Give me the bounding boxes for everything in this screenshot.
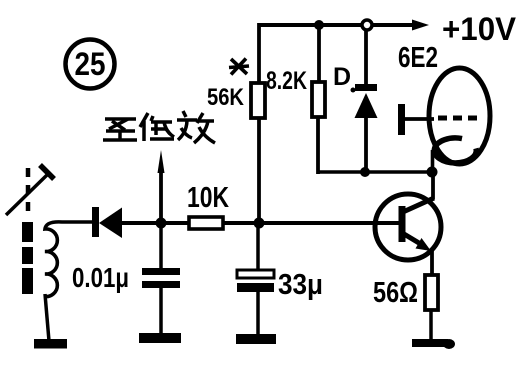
tube cathode lead to node (431, 150, 435, 174)
svg-text:10K: 10K (187, 182, 229, 214)
svg-text:8.2K: 8.2K (266, 67, 307, 95)
capacitor 0.01u plates (142, 268, 180, 288)
rail arrowhead (412, 20, 429, 31)
capacitor 33u negative plate (237, 283, 274, 292)
wire 56K to base node (257, 118, 261, 223)
diode D (cathode bar top, triangle pointing up) (355, 84, 378, 118)
wire emitter to 56 ohm (430, 249, 434, 277)
terminal circle on rail (diode D branch) (362, 20, 372, 30)
capacitor 33u positive plate (hollow) (237, 270, 274, 278)
wire bottom rail to transistor collector (431, 172, 435, 199)
transistor base bar (399, 206, 406, 242)
wire node to capacitor 0.01u (159, 223, 163, 270)
transistor emitter stroke with arrow (404, 234, 431, 251)
transistor collector stroke (403, 198, 434, 212)
svg-text:+10V: +10V (442, 11, 517, 47)
circuit number 25 badge (66, 40, 115, 89)
wire 8.2K to bottom rail (316, 117, 320, 174)
svg-text:25: 25 (75, 46, 106, 82)
tube cathode arc (434, 138, 476, 163)
output arrow to audio amp (158, 150, 165, 223)
node collector/tube (427, 167, 438, 178)
svg-text:33μ: 33μ (278, 269, 323, 301)
tube target (dashed line) (438, 116, 481, 121)
resistor 56K body (251, 83, 265, 118)
wire base node to capacitor 33u (256, 223, 260, 272)
node base junction (254, 218, 265, 229)
wire 56 ohm to ground (429, 310, 433, 342)
ground (0.01u) (139, 333, 181, 343)
svg-text:6E2: 6E2 (398, 42, 438, 74)
node rail / 8.2K (314, 20, 324, 30)
svg-text:56Ω: 56Ω (373, 277, 418, 309)
wire rail to 8.2K (317, 25, 321, 84)
tube 6E2 envelope (429, 68, 490, 164)
antenna coil L (45, 222, 93, 297)
resistor 8.2K body (312, 82, 325, 117)
wire diode to base run (122, 221, 399, 225)
tuning adjuster arrow across rod (6, 165, 54, 215)
wire diode D to bottom rail (364, 118, 368, 174)
ferrite rod antenna (dashed core) (22, 168, 33, 294)
+10V supply rail (259, 23, 417, 27)
ink fleck after D (351, 88, 356, 93)
resistor 10K body (189, 217, 223, 229)
svg-text:0.01μ: 0.01μ (72, 262, 129, 293)
wire 0.01u to ground (159, 288, 163, 336)
wire terminal to diode D (364, 29, 368, 86)
asterisk (adjust on test) (229, 59, 249, 75)
wire 33u to ground (256, 292, 260, 337)
bottom node rail (8.2K / D / tube / collector) (317, 170, 432, 174)
node detector output (156, 218, 167, 229)
detector diode (cathode bar left, triangle pointing left) (92, 207, 122, 238)
svg-text:56K: 56K (207, 84, 245, 111)
tube grid bar (398, 104, 405, 135)
transistor Q envelope (375, 194, 441, 260)
svg-text:D: D (333, 63, 351, 91)
ground (56 ohm) (412, 339, 455, 349)
tube grid lead into envelope (405, 117, 434, 121)
label 至低放 (to audio amplifier) hand-drawn (103, 111, 215, 143)
resistor 56 ohm body (425, 275, 438, 310)
wire coil to ground (45, 294, 49, 341)
ground (33u) (236, 334, 276, 344)
wire 56K top branch (257, 23, 261, 85)
ground (antenna) (34, 339, 67, 349)
node D bottom (360, 167, 370, 177)
